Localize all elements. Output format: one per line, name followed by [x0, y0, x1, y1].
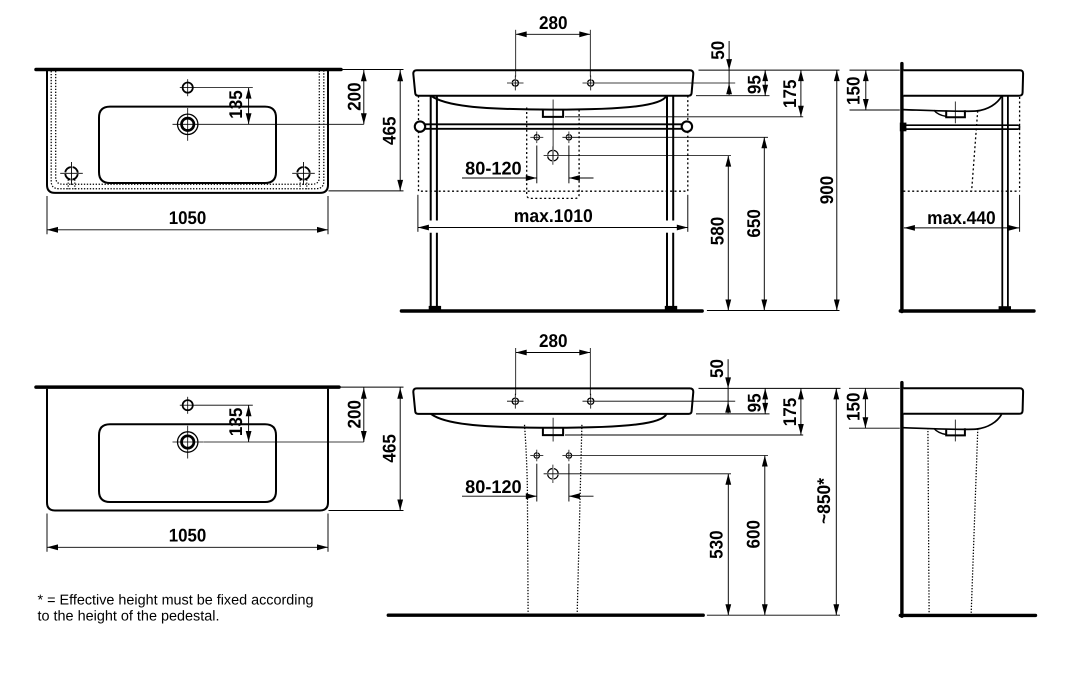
svg-text:max.440: max.440 — [927, 207, 996, 228]
plan view: drain centerlines — [187, 108, 189, 141]
side view: bowl drain scoop — [934, 110, 946, 116]
front view: basin body — [413, 70, 693, 96]
dimension 280 (tap hole spacing) — [515, 30, 517, 77]
dimension 600 (floor to screws) — [764, 456, 766, 616]
pedestal front view: right fixing screw crosshair — [566, 453, 571, 458]
plan view: drain outer circle — [178, 114, 198, 134]
dimension 465 (pedestal version) — [339, 386, 404, 388]
pedestal side view: pedestal hidden outline (dashed) — [928, 428, 929, 613]
side view: console leg — [1001, 96, 1003, 308]
dimension 1050 (basin width) — [46, 196, 48, 234]
bottom plan view: basin outer rim — [47, 389, 328, 511]
dimension max.440 (console depth) — [1019, 195, 1021, 232]
bottom plan view: drain outer circle — [178, 432, 198, 452]
svg-text:900: 900 — [816, 176, 837, 205]
svg-text:95: 95 — [743, 75, 764, 94]
pedestal front view: right tap hole crosshair — [588, 398, 594, 404]
dimension 900 (floor to top edge) — [836, 70, 838, 310]
bottom plan view: drain inner ring — [182, 436, 194, 448]
front view: drain fitting — [543, 110, 563, 117]
dimension 95 (ceramic thickness) — [764, 70, 766, 96]
svg-text:80-120: 80-120 — [465, 158, 522, 179]
svg-text:max.1010: max.1010 — [514, 205, 593, 226]
side view: rail wall bracket — [900, 123, 907, 132]
bottom plan view: wall line — [36, 385, 339, 389]
side view: hidden console + drain outlines (dashed) — [903, 190, 1019, 192]
pedestal front view: pedestal hidden outline (dashed) — [525, 425, 529, 613]
svg-text:200: 200 — [344, 400, 365, 429]
front view: left fixing screw crosshair — [534, 135, 539, 140]
pedestal front view: basin body — [413, 388, 693, 414]
pedestal side view: bowl drain scoop — [934, 428, 946, 434]
plan view: left fixing hole crosshair — [65, 167, 78, 180]
pedestal front view: bowl underside curve — [431, 414, 667, 428]
svg-text:135: 135 — [225, 90, 246, 119]
front view: right fixing screw crosshair — [566, 135, 571, 140]
plan view: hidden edge dashed inset 2 — [56, 71, 320, 184]
front view: siphon hidden outline (dashed) — [527, 108, 579, 199]
svg-text:50: 50 — [707, 41, 728, 60]
dimension 465 (basin depth, shared) — [341, 69, 404, 71]
pedestal front view: left fixing screw crosshair — [534, 453, 539, 458]
plan view: tap hole circle — [183, 83, 193, 93]
svg-text:650: 650 — [743, 209, 764, 238]
pedestal side view: basin body — [903, 388, 1023, 414]
dimension 1050 (pedestal version) — [46, 514, 48, 552]
svg-text:600: 600 — [743, 520, 764, 549]
svg-text:530: 530 — [705, 530, 726, 559]
dimension 280 (pedestal version) — [515, 348, 517, 395]
svg-text:280: 280 — [539, 12, 568, 33]
pedestal front view: drain pipe crosshair — [548, 469, 559, 480]
pedestal side view: drain fitting — [946, 428, 965, 435]
side view: bowl underside profile — [903, 96, 1001, 111]
front view: floor line — [401, 309, 702, 312]
svg-text:1050: 1050 — [169, 207, 207, 228]
svg-text:1050: 1050 — [169, 525, 207, 546]
dimension 150 (top edge to underside) — [850, 69, 900, 71]
dimension 80-120 (screw spacing) — [536, 146, 538, 184]
front view: left console leg — [430, 96, 432, 221]
plan view: drain inner ring — [182, 118, 194, 130]
plan view: wall line — [36, 68, 341, 72]
svg-text:50: 50 — [706, 359, 727, 378]
front view: right tap hole crosshair — [588, 80, 594, 86]
svg-text:135: 135 — [225, 408, 246, 437]
svg-text:200: 200 — [344, 82, 365, 111]
side view: towel rail — [903, 124, 1018, 126]
dimension 135 (pedestal version) — [196, 404, 253, 406]
svg-text:150: 150 — [843, 76, 864, 105]
front view: bowl underside curve — [431, 96, 667, 110]
side view: basin body — [903, 70, 1023, 96]
extension lines right of pedestal front view — [699, 387, 841, 389]
bottom plan view: inner bowl outline — [99, 424, 276, 502]
svg-text:80-120: 80-120 — [465, 476, 522, 497]
plan view: inner bowl outline — [99, 107, 276, 183]
bottom plan view: tap hole circle — [183, 400, 193, 410]
svg-text:465: 465 — [379, 434, 400, 463]
pedestal front view: left tap hole crosshair — [512, 398, 518, 404]
pedestal side view: bowl underside profile — [903, 414, 1001, 429]
front view: console hidden outline (dashed rect) — [419, 96, 688, 192]
pedestal front view: drain fitting — [543, 428, 563, 435]
dimension ~850* (floor to top edge) — [835, 388, 837, 615]
dimension 580 (floor to drain crosshair) — [727, 156, 729, 311]
front view: towel rail — [415, 121, 425, 131]
dimension 650 (floor to screws) — [763, 137, 765, 310]
plan view: hidden edge dashed inset 1 — [51, 71, 324, 189]
bottom plan view: drain centerlines — [187, 426, 189, 459]
plan view: basin outer rim — [47, 71, 328, 193]
svg-text:to the height of the pedestal.: to the height of the pedestal. — [38, 609, 220, 625]
dimension 50 (pedestal version) — [727, 359, 729, 413]
dimension 175 (pedestal version) — [800, 388, 802, 435]
dimension 175 (top edge to drain fitting) — [800, 70, 802, 117]
front view: drain pipe crosshair — [548, 150, 559, 161]
dimension 150 (pedestal version) — [849, 387, 900, 389]
svg-text:465: 465 — [379, 116, 400, 145]
dimension 200 (wall to drain) — [363, 70, 365, 125]
svg-text:175: 175 — [779, 398, 800, 427]
plan view: right fixing hole crosshair — [297, 167, 310, 180]
svg-text:150: 150 — [842, 393, 863, 422]
pedestal side view: floor line — [900, 614, 1035, 617]
dimension 135 (tap to drain) — [196, 87, 253, 89]
svg-text:* = Effective height must be f: * = Effective height must be fixed accor… — [38, 592, 314, 608]
pedestal front view: floor line — [388, 614, 703, 617]
extension lines right of front view — [699, 69, 840, 71]
svg-text:175: 175 — [779, 80, 800, 109]
dimension 50 (top edge to tap holes) — [728, 41, 730, 95]
front view: right console leg — [666, 96, 668, 221]
svg-text:~850*: ~850* — [813, 477, 834, 524]
svg-text:95: 95 — [743, 393, 764, 412]
dimension 200 (pedestal version) — [204, 441, 364, 443]
front view: left tap hole crosshair — [512, 80, 518, 86]
dimension 95 (pedestal version) — [764, 388, 766, 414]
pedestal side view: wall line — [900, 383, 903, 617]
svg-text:280: 280 — [539, 330, 568, 351]
dimension 80-120 (pedestal version) — [536, 464, 538, 502]
side view: wall line — [900, 64, 903, 312]
dimension 530 (floor to drain crosshair) — [727, 474, 729, 615]
side view: floor line — [900, 309, 1034, 312]
dimension max.1010 (console width) — [417, 195, 419, 232]
side view: drain fitting — [946, 110, 965, 117]
svg-text:580: 580 — [706, 217, 727, 246]
